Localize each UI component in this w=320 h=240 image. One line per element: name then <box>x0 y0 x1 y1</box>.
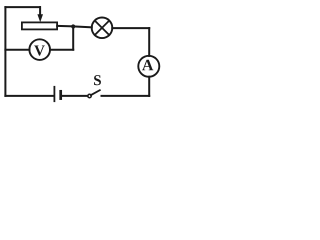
node junction dot <box>71 24 75 28</box>
ammeter A1 circle <box>138 56 159 77</box>
wire lamp right to top-right corner <box>112 27 149 29</box>
wire left vertical <box>4 7 6 96</box>
wire bottom right segment <box>102 95 150 97</box>
wire right vertical upper <box>148 28 150 56</box>
wire voltmeter right lead <box>50 49 73 51</box>
wire right vertical lower <box>148 77 150 96</box>
wire slider stem <box>39 7 41 15</box>
battery B1 long thin plate <box>53 87 55 101</box>
ammeter label A <box>142 60 153 71</box>
battery B1 short thick plate <box>59 91 62 98</box>
wire battery to bottom-left corner <box>5 95 53 97</box>
voltmeter label V <box>34 46 45 56</box>
switch S pivot <box>88 94 91 97</box>
voltmeter V1 circle <box>29 39 50 60</box>
lamp L1 circle <box>92 18 113 39</box>
rheostat R1 slider arrowhead <box>37 14 43 22</box>
wire rheostat right terminal to node <box>57 25 73 28</box>
wire voltmeter left lead <box>5 49 29 51</box>
lamp L1 cross <box>95 21 109 35</box>
wire switch to battery <box>62 95 88 97</box>
wire node down to voltmeter branch <box>72 26 74 49</box>
wire node to lamp <box>73 25 92 28</box>
resistor R1 (rheostat body) <box>22 22 57 29</box>
wire top-left horizontal <box>5 6 40 8</box>
switch S blade <box>91 90 100 95</box>
switch label S <box>94 75 101 85</box>
